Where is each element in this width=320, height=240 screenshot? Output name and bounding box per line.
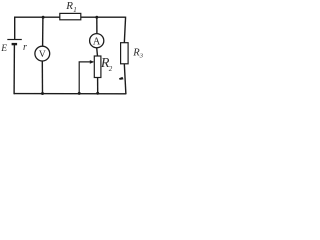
svg-text:E: E xyxy=(0,44,7,54)
svg-text:1: 1 xyxy=(73,6,77,14)
svg-text:3: 3 xyxy=(139,53,144,60)
svg-text:V: V xyxy=(39,50,46,60)
svg-text:2: 2 xyxy=(109,65,113,73)
svg-text:A: A xyxy=(93,36,101,47)
svg-text:r: r xyxy=(23,42,27,53)
svg-text:R: R xyxy=(65,0,73,12)
